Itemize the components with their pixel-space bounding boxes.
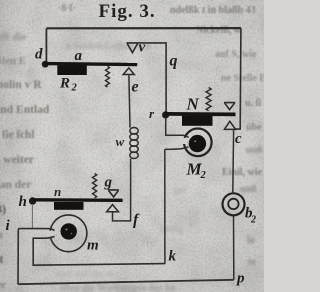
svg-text:nnd Entlad: nnd Entlad (0, 104, 50, 116)
svg-text:d: d (35, 47, 43, 63)
wire left drop to d (45, 28, 47, 62)
right lower vertical through b2 to p (233, 215, 235, 279)
back contact v (triangle above bar a) (127, 43, 139, 53)
svg-text:q: q (170, 53, 178, 70)
top wire (46, 27, 241, 29)
svg-text:n ſie ſchl: n ſie ſchl (0, 129, 35, 141)
front contact e (triangle below bar a) (123, 68, 134, 75)
electromagnet block n (54, 202, 84, 210)
node r (162, 111, 169, 118)
wire h down to i wire (31, 204, 33, 229)
svg-text:Einil, wie: Einil, wie (222, 167, 263, 178)
battery b2 inner circle (228, 199, 238, 209)
node h (29, 197, 36, 204)
svg-text:Fig. 3.: Fig. 3. (99, 1, 156, 22)
wire from v to q corner (138, 43, 166, 112)
svg-text:c: c (235, 131, 242, 147)
spring of relay n (93, 174, 97, 198)
svg-text:2: 2 (71, 83, 78, 94)
svg-text:n weiter: n weiter (0, 154, 34, 166)
svg-text:p: p (235, 271, 245, 287)
wire k up to M2 lower lead (164, 149, 166, 263)
svg-text:er: er (0, 280, 6, 291)
electromagnet block N (182, 116, 213, 126)
svg-text:ſt: ſt (0, 252, 3, 266)
svg-text:m: m (87, 238, 99, 254)
M2 lower lead (165, 147, 189, 150)
front contact c (triangle below bar N) (224, 121, 235, 129)
right vertical from top wire down to contact bracket (234, 28, 241, 129)
svg-text:geſ: geſ (174, 185, 187, 196)
svg-text:e: e (132, 79, 139, 96)
svg-text:a: a (75, 48, 83, 64)
svg-text:unß: unß (240, 184, 257, 195)
spring of relay a (106, 66, 110, 87)
svg-text:h: h (19, 194, 27, 210)
wire b2 up to contact c (232, 130, 235, 193)
svg-text:k: k (169, 249, 177, 265)
armature bar n of relay (32, 198, 122, 202)
M2 outer loop (184, 129, 212, 157)
svg-text:ne Stelle E: ne Stelle E (221, 73, 264, 84)
svg-text:·8·ſ·: ·8·ſ· (58, 3, 76, 14)
electromagnet block R2 (57, 65, 87, 75)
svg-text:n: n (54, 184, 61, 199)
battery b2 outer circle (223, 193, 245, 215)
i wire into motor m upper lead (18, 229, 54, 231)
bottom outer wire (18, 280, 234, 284)
svg-text:Nickelß, w: Nickelß, w (196, 25, 242, 36)
svg-text:w: w (116, 134, 125, 149)
svg-text:delt die: delt die (0, 31, 27, 43)
svg-text:t an der: t an der (0, 179, 31, 191)
svg-text:ändig: ändig (160, 224, 184, 235)
wire coil w down to f corner (113, 159, 131, 221)
wire r down into M2 upper lead (166, 118, 189, 138)
svg-text:u. ſi: u. ſi (245, 98, 261, 109)
motor m outer loop (50, 215, 87, 252)
svg-text:3): 3) (0, 202, 6, 216)
spring of relay N (206, 88, 211, 111)
motor m rotor disc (60, 223, 76, 239)
svg-text:unß: unß (246, 145, 263, 156)
svg-text:ndelßk t in blaßb 43: ndelßk t in blaßb 43 (170, 5, 256, 16)
svg-text:auf S, wie: auf S, wie (215, 49, 257, 60)
armature bar a of relay R2 (45, 62, 137, 66)
back contact g (triangle above bar n) (108, 190, 119, 197)
svg-text:u: u (0, 230, 3, 241)
front contact f (triangle below bar n) (107, 205, 119, 212)
svg-text:und auf die m: und auf die m (55, 269, 115, 280)
svg-text:la: la (247, 235, 255, 246)
svg-text:übe: übe (246, 122, 262, 133)
back contact (triangle above bar N) (224, 103, 235, 110)
svg-text:g: g (104, 175, 113, 191)
svg-text:tholin v R: tholin v R (0, 79, 42, 91)
svg-text:eilen E: eilen E (0, 55, 26, 67)
left outer drop (17, 229, 19, 285)
motor m lower lead to inner loop (33, 236, 165, 265)
svg-text:v: v (139, 40, 146, 56)
svg-text:R: R (59, 76, 70, 92)
wire e down to coil w (129, 75, 130, 127)
armature bar N (165, 112, 236, 116)
node d (42, 61, 49, 68)
svg-text:te: te (248, 257, 256, 268)
svg-text:2: 2 (200, 170, 207, 181)
svg-text:2: 2 (250, 215, 256, 226)
svg-text:über die Wirkungen der be: über die Wirkungen der be (60, 283, 176, 292)
coil w (stacked loops) (130, 128, 138, 159)
svg-text:N: N (186, 95, 200, 114)
M2 rotor disc (189, 135, 206, 152)
